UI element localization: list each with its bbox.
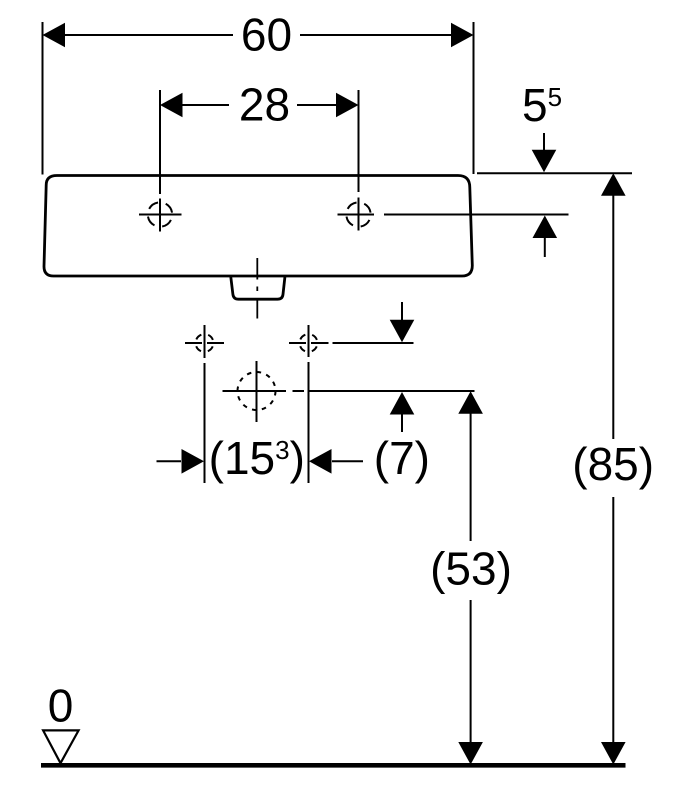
svg-text:(7): (7) xyxy=(374,432,430,484)
svg-text:(85): (85) xyxy=(572,438,654,490)
svg-text:60: 60 xyxy=(241,9,292,61)
svg-text:(53): (53) xyxy=(430,543,512,595)
svg-text:0: 0 xyxy=(48,680,74,732)
svg-text:28: 28 xyxy=(239,79,290,131)
svg-text:(153): (153) xyxy=(209,432,305,484)
